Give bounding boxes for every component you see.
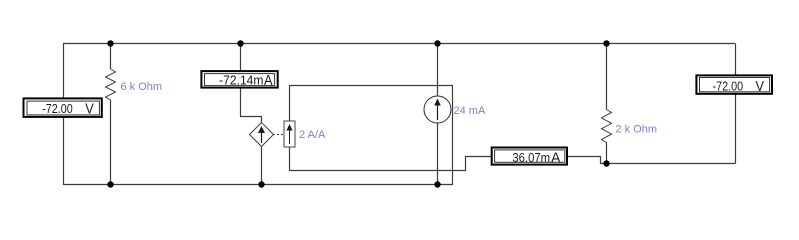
wire top bus <box>63 43 735 45</box>
voltmeter U4 (right) <box>696 75 772 95</box>
ammeter U2 (top, -72.14mA) <box>201 71 277 89</box>
wire bottom bus <box>63 184 453 186</box>
wire 6k branch <box>110 44 112 185</box>
voltmeter U1 (left) <box>24 98 102 117</box>
svg-text:2 A/A: 2 A/A <box>299 129 326 141</box>
junction bottom diamond <box>258 181 264 187</box>
wire left voltmeter branch <box>63 44 65 185</box>
dependent source F1 diamond <box>250 123 274 147</box>
junction 2k bottom node <box>603 160 609 166</box>
svg-text:A: A <box>551 149 561 166</box>
svg-text:-72.14m: -72.14m <box>219 74 263 88</box>
sense element (current probe) <box>284 121 295 147</box>
wire 2k top branch <box>606 44 608 164</box>
dashed control link <box>273 134 284 136</box>
svg-text:6 k Ohm: 6 k Ohm <box>121 81 163 93</box>
svg-text:A: A <box>264 72 273 89</box>
wire sense loop bottom to ammeter2 <box>290 147 492 171</box>
junction top 6k <box>107 40 113 46</box>
svg-text:-72.00: -72.00 <box>42 102 73 116</box>
resistor R2 2k zigzag <box>602 110 612 143</box>
junction top source <box>434 40 440 46</box>
wire current source branch <box>437 44 439 185</box>
svg-text:V: V <box>756 78 765 95</box>
wire bottom-right to voltmeter <box>606 163 736 165</box>
junction top 2k <box>603 40 609 46</box>
junction bottom 6k <box>107 181 113 187</box>
resistor R1 6k zigzag <box>106 69 116 100</box>
current source I1 circle <box>424 96 451 123</box>
wire ammeter1 branch with jog to diamond <box>241 44 262 185</box>
junction bottom source <box>434 181 440 187</box>
svg-text:2 k Ohm: 2 k Ohm <box>616 124 658 136</box>
wire sense loop top: sense top to bottom node <box>290 86 453 185</box>
svg-text:V: V <box>85 101 94 118</box>
wire right voltmeter branch <box>735 44 737 164</box>
svg-text:36.07m: 36.07m <box>512 151 550 165</box>
svg-text:24 mA: 24 mA <box>454 105 486 117</box>
wire ammeter2 to 2k bottom junction <box>568 157 606 164</box>
junction top ammeter1 <box>237 40 243 46</box>
svg-text:-72.00: -72.00 <box>713 80 744 94</box>
ammeter U3 (36.07mA) <box>492 148 567 167</box>
